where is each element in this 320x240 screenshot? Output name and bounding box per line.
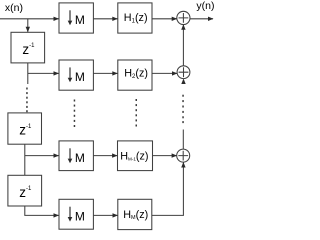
svg-text:y(n): y(n) bbox=[196, 0, 214, 12]
svg-text:M: M bbox=[75, 209, 85, 223]
svg-text:M: M bbox=[75, 70, 85, 84]
svg-text:M: M bbox=[75, 151, 85, 165]
svg-text:x(n): x(n) bbox=[5, 2, 23, 14]
svg-text:HM(z): HM(z) bbox=[123, 209, 148, 221]
svg-text:H1(z): H1(z) bbox=[124, 12, 148, 24]
svg-text:H2(z): H2(z) bbox=[124, 68, 148, 80]
svg-text:M: M bbox=[75, 13, 85, 27]
